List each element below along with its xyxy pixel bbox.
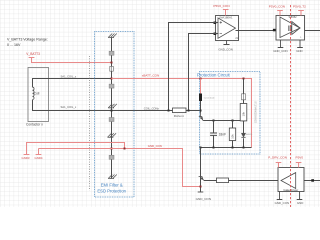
svg-text:SZMMBZ5V6ALT1G: SZMMBZ5V6ALT1G xyxy=(254,101,257,123)
capacitor C1 18nF xyxy=(210,121,226,148)
junction coil_con prot xyxy=(200,110,202,112)
wire prot to Q2 xyxy=(200,148,202,193)
junction shunt left xyxy=(168,110,170,112)
svg-text:GND_CON: GND_CON xyxy=(218,47,232,51)
chassis ground mid1 xyxy=(108,104,117,108)
coil L1 xyxy=(33,87,40,99)
svg-text:P5V0_T2: P5V0_T2 xyxy=(293,5,306,9)
svg-text:P5V0_CON: P5V0_CON xyxy=(213,4,229,8)
wire prot left vertical red part xyxy=(200,79,202,94)
svg-text:0 ... 16V: 0 ... 16V xyxy=(7,43,21,47)
fuse F1 xyxy=(110,66,114,71)
wire GND_CON net xyxy=(39,144,201,186)
ground GND U2 xyxy=(296,40,303,53)
wire U3 output xyxy=(304,180,320,182)
gate driver U3 box xyxy=(278,168,304,193)
svg-text:INA180A1: INA180A1 xyxy=(219,16,233,20)
wire U2 output xyxy=(305,30,320,32)
svg-text:V_BATT3: V_BATT3 xyxy=(26,52,40,56)
ground GND_CON U3 xyxy=(275,192,289,206)
svg-text:ESD Protection: ESD Protection xyxy=(97,188,126,193)
wire U1 output to U2 xyxy=(236,30,281,32)
ferrite bead FB4 xyxy=(109,155,114,159)
wire R3 to gate driver xyxy=(229,180,282,182)
supply P5V0_CON U2 xyxy=(269,5,285,16)
svg-text:P5V0: P5V0 xyxy=(296,155,304,159)
resistor R3 xyxy=(217,178,229,183)
svg-text:xBATT_CON: xBATT_CON xyxy=(142,73,159,77)
junction xBATT at prot left xyxy=(200,78,202,80)
junction rail cap xyxy=(213,147,215,149)
chassis ground top xyxy=(108,34,117,38)
resistor Rshunt xyxy=(173,108,187,118)
wire U1 input- to shunt right xyxy=(189,34,219,111)
svg-text:GND3: GND3 xyxy=(22,156,30,160)
EMI filter box xyxy=(95,32,135,198)
svg-text:P5V0_CON: P5V0_CON xyxy=(269,5,285,9)
svg-text:GND_CON: GND_CON xyxy=(273,49,287,53)
EMI chain wire xyxy=(111,38,113,179)
isolation capacitor U2 xyxy=(289,26,291,32)
gate driver U3 triangle xyxy=(281,173,296,189)
svg-text:SA1_COIL_x: SA1_COIL_x xyxy=(61,105,77,109)
svg-text:GND: GND xyxy=(296,49,302,53)
ferrite bead FB3 xyxy=(109,118,114,122)
svg-text:10k: 10k xyxy=(231,134,235,139)
junction rail d2 xyxy=(243,147,245,149)
ferrite bead FB1 xyxy=(109,51,114,55)
svg-text:transil diode: transil diode xyxy=(204,96,216,99)
wire coil bottom SA1_COIL_x xyxy=(33,100,201,111)
pin square U1 input+ xyxy=(214,22,217,25)
supply P_DRV_CON U3 xyxy=(268,155,287,167)
isolator U2 box xyxy=(276,15,305,40)
ground GND_CON Q2 xyxy=(196,192,211,201)
junction r2 top xyxy=(232,120,234,122)
junction rail r2 xyxy=(232,147,234,149)
svg-text:2G: 2G xyxy=(235,37,238,40)
isolation barrier red dashed xyxy=(290,5,292,207)
junction shunt right xyxy=(188,110,190,112)
svg-text:Protection Circuit: Protection Circuit xyxy=(197,73,231,78)
wire GND3 net xyxy=(27,143,125,149)
fuse F2 xyxy=(242,79,246,104)
svg-text:10k: 10k xyxy=(242,111,246,116)
svg-text:Rshunt: Rshunt xyxy=(174,114,184,118)
junction cap top xyxy=(213,120,215,122)
transistor Q1 xyxy=(199,113,203,121)
svg-text:GND4: GND4 xyxy=(35,156,43,160)
svg-text:GND_CON: GND_CON xyxy=(196,197,211,201)
resistor R1 10k vertical xyxy=(240,104,247,121)
wire coil top SA1_COIL_x xyxy=(33,75,112,88)
supply GND3 xyxy=(22,149,30,161)
wire prot bottom rail xyxy=(201,147,252,149)
op-amp U1 triangle xyxy=(218,18,236,38)
junction coil_con node xyxy=(111,110,113,112)
junction gnd3 joins gnd_con xyxy=(124,148,126,150)
protection circuit box xyxy=(197,72,260,155)
note: V_BATT3 voltage range annotation xyxy=(7,37,48,47)
svg-text:GND_CON: GND_CON xyxy=(148,144,162,148)
ground GND U3 xyxy=(297,192,304,206)
op-amp U1 INA180A1 box xyxy=(216,16,239,41)
svg-text:P_DRV_CON: P_DRV_CON xyxy=(268,155,287,159)
ground GND_CON U2 xyxy=(273,40,287,53)
junction Q2 gnd xyxy=(200,186,202,188)
supply P5V0_CON U1 xyxy=(213,4,229,16)
chassis ground mid2 xyxy=(108,133,117,137)
supply P5V0 U3 xyxy=(296,155,304,167)
svg-text:Contactor x: Contactor x xyxy=(26,122,43,126)
supply V_BATT3 xyxy=(26,52,40,60)
isolator U2 triangles xyxy=(280,17,300,38)
junction d2 top xyxy=(243,120,245,122)
svg-text:BAS16: BAS16 xyxy=(246,133,253,136)
junction gnd_con node xyxy=(111,148,113,150)
wire Q2 to R3 xyxy=(204,180,217,182)
TVS diode D1 xyxy=(199,94,215,102)
svg-text:Coil: Coil xyxy=(34,92,40,96)
wire prot left vertical xyxy=(200,94,202,113)
svg-text:V_BATT3 Voltage Range:: V_BATT3 Voltage Range: xyxy=(7,37,48,41)
wire V_BATT3 to EMI filter xyxy=(32,60,112,63)
svg-text:COIL_CONx: COIL_CONx xyxy=(144,107,160,111)
junction xBATT node xyxy=(111,78,113,80)
chassis ground bottom xyxy=(108,175,117,179)
ground GND_CON U1 xyxy=(218,41,232,52)
contactor K1 box xyxy=(26,68,49,127)
svg-text:18nF: 18nF xyxy=(219,132,227,136)
supply P5V0_T2 U2 xyxy=(293,5,306,16)
diode D2 xyxy=(241,121,253,148)
svg-text:GND: GND xyxy=(297,201,303,205)
svg-text:SA1_COIL_x: SA1_COIL_x xyxy=(61,75,77,79)
svg-text:Si8952: Si8952 xyxy=(289,15,298,19)
junction V_BATT3 node xyxy=(111,62,113,64)
ferrite bead FB2 xyxy=(109,84,114,88)
transistor Q2 xyxy=(199,177,204,181)
wire Q1 to branches xyxy=(203,120,243,122)
wire xBATT_CON red xyxy=(112,73,252,147)
junction rail left xyxy=(200,147,202,149)
pin square U1 input- xyxy=(214,33,217,36)
pin square U2 input xyxy=(273,29,276,32)
svg-text:EMI Filter &: EMI Filter & xyxy=(101,183,123,188)
junction xBATT at prot right xyxy=(243,78,245,80)
isolation dotted line left xyxy=(89,56,91,191)
resistor R2 10k vertical xyxy=(229,121,235,148)
wire U1 input+ to shunt left xyxy=(169,23,219,111)
pin square U3 output xyxy=(311,179,314,182)
svg-text:GND_CON: GND_CON xyxy=(275,201,289,205)
supply GND4 xyxy=(35,149,43,161)
